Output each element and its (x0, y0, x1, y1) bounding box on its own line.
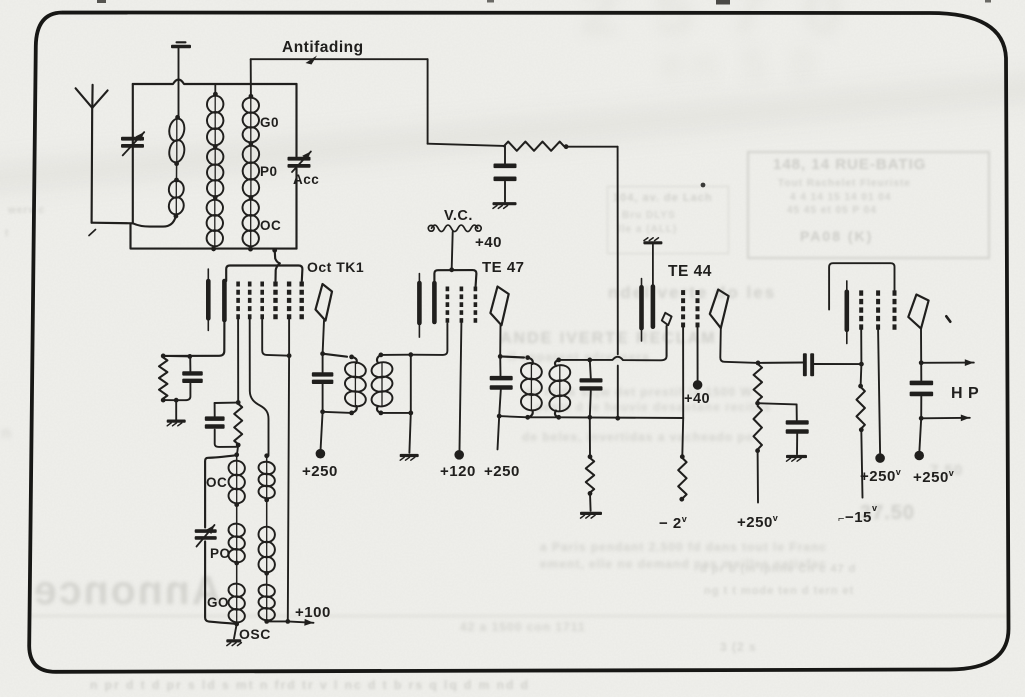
coil L4 osc grid side (234, 452, 239, 457)
svg-text:+40: +40 (684, 391, 710, 407)
capacitor C9 HP (920, 363, 922, 381)
wire output anode down (920, 329, 922, 363)
tube TE47 grid bar (432, 283, 437, 322)
potentiometer V.C. (428, 225, 434, 231)
tube TE44 filament (641, 279, 643, 341)
wire input frame right (295, 84, 297, 157)
wire TK1 top bus (226, 266, 302, 282)
wire antifading down (566, 146, 618, 148)
tube TE44 grid g1 (681, 290, 685, 327)
tube TE44 anode (710, 290, 729, 329)
transformer IF2 primary (500, 356, 524, 357)
antenna trimmer (171, 45, 191, 48)
coil L5 osc anode side (264, 453, 269, 458)
wire input bottom bus (131, 224, 297, 249)
wire TK1 g5 down (+100 line) (288, 320, 290, 356)
tube TE47 grid g2 (446, 287, 450, 324)
tube output grid g3 (893, 290, 897, 330)
resistor R3 to ground (589, 417, 591, 456)
wire TK1 g2 to osc (250, 320, 269, 456)
wire input frame left (132, 84, 134, 223)
tube output grid g1 (859, 290, 863, 330)
svg-text:H P: H P (951, 385, 979, 402)
tube TK1 cathode bar (207, 269, 209, 330)
svg-text:TE 44: TE 44 (668, 263, 712, 280)
tube TE47 cathode (418, 274, 420, 338)
wire TK1 anode down (323, 321, 324, 354)
tube TK1 grid g5 (287, 282, 291, 320)
wire TK1 g1 down (237, 320, 239, 403)
capacitor C2 osc grid (214, 403, 216, 416)
wire TE44 g2 +40 (697, 327, 699, 380)
wire IF2 sec top (559, 359, 590, 361)
resistor R5 bias -2 (680, 454, 685, 459)
tube TE44 cathode bar (651, 287, 656, 327)
tube output cathode (846, 281, 848, 344)
svg-text:PO: PO (210, 546, 231, 561)
svg-text:v: v (872, 503, 877, 513)
resistor R4 antifading (504, 142, 564, 151)
svg-text:Acc: Acc (293, 172, 319, 187)
tube TK1 grid g1 (236, 282, 240, 320)
ink speck near anode (946, 316, 950, 321)
wire IF1 avc vertical (410, 355, 412, 413)
wire osc grid junction (236, 400, 241, 405)
capacitor C1 cathode (189, 356, 191, 371)
svg-text:P0: P0 (260, 164, 278, 179)
tube output anode (908, 295, 928, 329)
resistor R1 cathode (159, 358, 167, 399)
transformer IF1 primary (323, 354, 347, 357)
svg-text:+250: +250 (484, 463, 520, 480)
capacitor C3 IF1 (322, 354, 324, 372)
svg-text:G0: G0 (260, 115, 279, 130)
svg-text:+40: +40 (475, 234, 502, 251)
wire output screen +250 (878, 330, 880, 453)
tube TK1 grid bar2 (222, 281, 227, 320)
tube TE44 grid g2 (696, 290, 700, 327)
transformer IF2 secondary (556, 358, 561, 363)
wire TE44 anode down (720, 328, 758, 363)
wire TE47 grid bus (434, 270, 476, 286)
coil L1 (175, 115, 180, 120)
wire pot tap (758, 403, 797, 404)
wire TE44 g1 down (682, 327, 684, 418)
variable capacitor osc (195, 529, 217, 533)
capacitor C8 af (786, 420, 809, 424)
wire det out (758, 362, 803, 364)
ground cathode RC (175, 400, 177, 419)
transformer IF1 secondary (379, 353, 384, 358)
tube TK1 grid g2 (248, 282, 252, 320)
tube TK1 grid g3 (260, 282, 264, 320)
capacitor C6 antifading (504, 146, 506, 163)
wire TK1 cathode bias (163, 320, 224, 356)
wire osc +100 (267, 620, 288, 622)
tube TE47 grid g3 (460, 287, 464, 324)
wire HP top arrow (921, 362, 974, 364)
wire IF2 +250 (498, 416, 500, 449)
svg-text:OC: OC (260, 218, 281, 233)
svg-text:OC: OC (206, 475, 227, 490)
wire HP bottom arrow (921, 417, 970, 420)
ground osc (234, 624, 237, 639)
svg-text:V.C.: V.C. (444, 208, 473, 224)
resistor R2 osc grid (234, 404, 242, 444)
ground TE44 cathode (643, 241, 662, 244)
tube TK1 grid g4 (273, 282, 277, 320)
wire RC bottom (163, 399, 176, 401)
svg-text:+250v: +250v (913, 468, 954, 486)
svg-text:Oct TK1: Oct TK1 (307, 259, 364, 275)
ground IF1 (409, 413, 410, 453)
svg-text:+250: +250 (302, 463, 338, 480)
tube TK1 grid g6 (300, 282, 304, 320)
svg-text:+250v: +250v (737, 513, 778, 531)
tube output grid g2 (876, 290, 880, 330)
tube TE47 grid g4 (474, 287, 478, 324)
svg-text:TE 47: TE 47 (482, 259, 525, 276)
capacitor C7 coupling (803, 353, 807, 376)
variable capacitor ant (121, 137, 144, 141)
wire top bus (133, 80, 297, 85)
wire TK1 g3 to g5 (262, 320, 289, 356)
svg-text:GO: GO (207, 595, 229, 610)
wire IF1 +250 (321, 412, 323, 449)
wire TE47 anode down (499, 325, 501, 356)
capacitor C5 det (590, 360, 591, 378)
tube TK1 anode (316, 284, 333, 321)
svg-text:+100: +100 (295, 604, 331, 621)
wire HP +250 (919, 418, 921, 451)
coil L2 (214, 84, 216, 94)
wire IF1 sec top (381, 354, 411, 356)
wire output tube bracket (829, 263, 894, 309)
wire antifading top (251, 58, 428, 60)
variable capacitor Acc (288, 157, 311, 161)
wire TE47 g3 +120 (460, 323, 462, 450)
wire RC top (163, 355, 190, 358)
svg-text:+120: +120 (440, 463, 476, 480)
svg-text:OSC: OSC (239, 626, 271, 642)
wire osc frame (205, 455, 237, 527)
antenna (76, 88, 93, 108)
coil L3 (250, 59, 252, 96)
tube TE44 diode plate (662, 313, 672, 325)
wire output grid (860, 330, 862, 364)
svg-text:Antifading: Antifading (282, 39, 364, 56)
svg-text:+250v: +250v (860, 467, 901, 485)
ink dot speck (701, 183, 706, 188)
wire grid feed TK1 (275, 250, 280, 281)
wire IF2 bottom bus (499, 416, 528, 417)
capacitor C4 IF2 (499, 356, 501, 375)
wire antenna to input circuit (92, 222, 133, 225)
resistor R7 grid leak (860, 364, 863, 386)
potentiometer R6 volume (754, 364, 762, 401)
tube TE47 anode (490, 287, 508, 326)
